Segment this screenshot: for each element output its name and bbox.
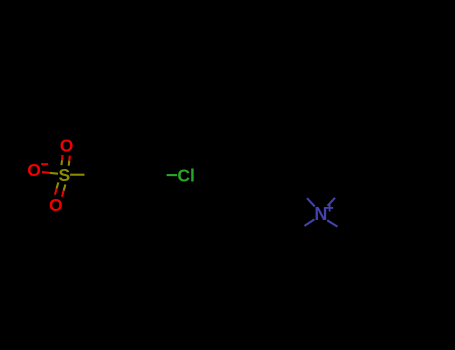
svg-text:O: O [60,136,74,156]
wire: double bond S=O top, line 2 [68,161,71,166]
svg-text:S: S [59,165,71,185]
svg-text:O: O [49,195,63,215]
wire: N bond down-left (blue half) [305,219,315,226]
svg-text:O: O [27,160,41,180]
wire: double bond S=O top, line 1 [60,160,63,165]
wire: single bond O(-) to S [42,171,50,174]
charge plus on N [326,204,333,211]
svg-text:Cl: Cl [177,165,195,185]
benzene ring (carbon skeleton, black on black) [111,141,169,208]
alkyl chains on N (black on black) [294,189,349,233]
wire: bond ring to Cl (green half) [167,174,177,176]
wire: double bond S=O bottom, line 1 (left) [57,182,59,188]
wire: N bond down-right (blue half) [327,220,337,226]
wire: bond S to ring (olive half) [70,174,84,176]
wire: N bond up-left (blue half) [307,198,315,206]
wire: double bond S=O bottom, line 2 (right) [64,185,66,191]
charge minus on O [41,163,48,165]
wire: N bond up-right (blue half) [328,198,336,206]
svg-text:N: N [314,204,327,224]
